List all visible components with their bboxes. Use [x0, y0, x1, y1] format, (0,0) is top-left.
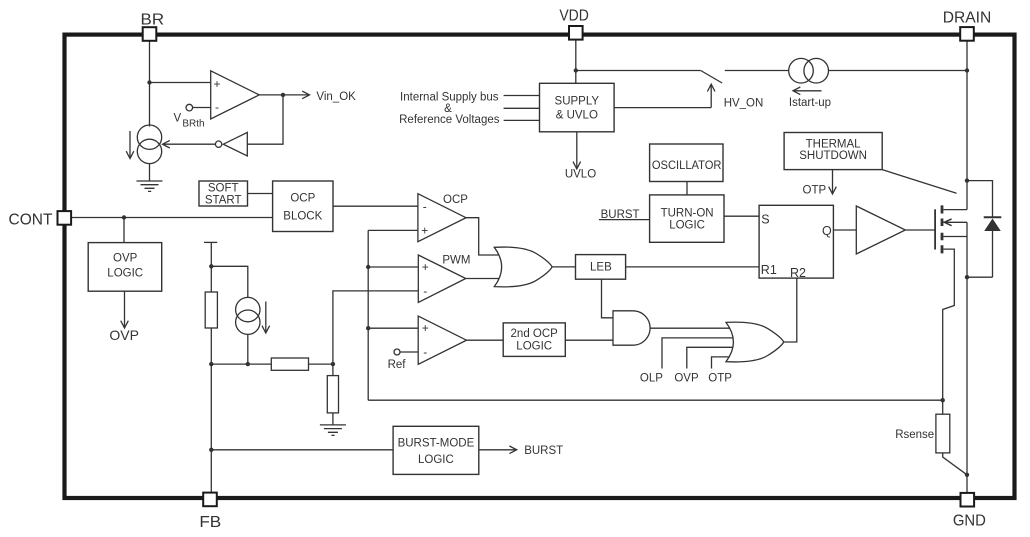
svg-text:Vin_OK: Vin_OK [316, 91, 356, 103]
svg-text:+: + [422, 260, 429, 274]
wire OTP arrow below THERMAL SHUTDOWN [832, 170, 834, 194]
arrow left below Istart-up [793, 90, 822, 92]
block THERMAL SHUTDOWN [784, 133, 882, 170]
svg-text:DRAIN: DRAIN [943, 10, 992, 27]
wire Rsense bottom to GND line [943, 453, 967, 475]
terminal VBRth (open circle) [186, 104, 193, 111]
svg-text:LOGIC: LOGIC [516, 341, 552, 353]
svg-text:PWM: PWM [442, 255, 470, 267]
node GND junction [965, 473, 969, 477]
diode D1 (body diode) [984, 216, 1002, 218]
wire DRAIN pin down to MOSFET drain [966, 41, 968, 210]
block OVP LOGIC [88, 243, 162, 292]
block SR latch [759, 205, 833, 278]
node diode top junction [965, 178, 969, 182]
svg-text:OCP: OCP [443, 194, 468, 206]
IC boundary frame [65, 35, 1015, 498]
svg-text:-: - [215, 100, 219, 114]
wire comparator output to Vin_OK arrow [259, 94, 309, 96]
svg-text:FB: FB [199, 514, 221, 531]
wire IBR to ground [149, 164, 151, 181]
block OSCILLATOR [650, 144, 723, 182]
wire OTP riser [712, 357, 743, 369]
wire rail to resistor R1 [210, 243, 212, 292]
svg-text:2nd OCP: 2nd OCP [511, 328, 559, 340]
svg-text:V: V [174, 112, 182, 124]
wire AND1 output to OR2 [650, 327, 745, 329]
svg-text:+: + [422, 321, 429, 335]
block TURN-ON LOGIC [650, 195, 724, 242]
wire junction to current source IFB [211, 266, 248, 297]
gate AND1 [613, 311, 650, 345]
node bus PWM+ [366, 265, 370, 269]
svg-text:R1: R1 [761, 263, 777, 277]
wire buffer to MOSFET gate [905, 229, 935, 231]
block SUPPLY & UVLO [540, 83, 615, 132]
wire VDD junction to HV_ON switch [576, 70, 701, 72]
node sense junction [941, 398, 945, 402]
wire SOFT START to OCP BLOCK [248, 193, 273, 195]
comparator PWM [418, 255, 466, 303]
wire bus to PWM + input [368, 266, 418, 268]
resistor R3 (vertical to ground) [327, 376, 338, 413]
block SOFT START [199, 181, 248, 206]
wire node down to resistor R3 [332, 364, 334, 376]
svg-text:OTP: OTP [708, 373, 732, 385]
wire switch to Istart-up source [725, 70, 789, 72]
node bus comp3+ [366, 326, 370, 330]
transistor M1 channel bars [941, 205, 944, 253]
wire BR pin to junction and current source [149, 41, 151, 127]
pin BR [143, 27, 157, 41]
wire OCP BLOCK to OCP comparator - input [333, 205, 418, 207]
svg-text:TURN-ON: TURN-ON [661, 207, 714, 219]
svg-text:BR: BR [141, 11, 165, 28]
block LEB [576, 255, 626, 280]
wire SUPPLY output to HV_ON arrow [614, 107, 711, 109]
buffer U3 [856, 206, 905, 254]
pin VDD [569, 26, 583, 40]
inverter U2 (points left) [223, 132, 247, 156]
node FB lower junction [209, 448, 213, 452]
wire junction to BURST-MODE LOGIC [211, 449, 393, 451]
wire internal supply bus inputs [504, 96, 540, 121]
svg-text:+: + [213, 77, 220, 91]
switch HV_ON blade [701, 71, 722, 84]
svg-text:BURST-MODE: BURST-MODE [398, 438, 475, 450]
node VDD junction [574, 68, 578, 72]
svg-text:Rsense: Rsense [895, 429, 934, 441]
wire current sense line [368, 399, 943, 401]
svg-text:+: + [421, 223, 428, 237]
node divider mid [246, 362, 250, 366]
wire M1 body down to GND line [966, 222, 968, 493]
svg-text:S: S [761, 212, 769, 226]
node CONT junction [122, 215, 126, 219]
svg-text:LOGIC: LOGIC [107, 267, 143, 279]
svg-text:& UVLO: & UVLO [556, 109, 598, 121]
svg-text:-: - [423, 284, 427, 298]
svg-text:BURST: BURST [524, 445, 563, 457]
svg-text:VDD: VDD [559, 8, 589, 25]
wire Ref to comp3 - input [400, 351, 418, 353]
wire bus to comp3 + input [368, 327, 418, 329]
node BR junction [147, 80, 151, 84]
wire junction down to inverter input [247, 95, 283, 144]
node diode bottom junction [965, 275, 969, 279]
svg-text:HV_ON: HV_ON [724, 97, 764, 109]
svg-text:OTP: OTP [803, 184, 827, 196]
ground below IBR [137, 181, 163, 191]
wire diagonal from THERMAL SHUTDOWN to gate [882, 170, 956, 194]
pin CONT [58, 211, 72, 225]
block BURST-MODE LOGIC [393, 426, 479, 474]
wire CONT to OCP BLOCK [71, 217, 272, 219]
node FB top junction [209, 264, 213, 268]
wire LEB to R1 input of latch [626, 266, 760, 268]
terminal Ref (open circle) [394, 349, 400, 355]
wire Istart-up to drain line [829, 70, 968, 72]
node Vin_OK junction [281, 93, 285, 97]
wire LEB bottom to AND gate [602, 279, 614, 318]
wire BURST input to TURN-ON LOGIC [599, 219, 650, 221]
arrow down beside IBR [129, 131, 131, 159]
wire PWM output to OR1 [466, 278, 505, 280]
wire 2nd OCP LOGIC to AND gate [565, 339, 613, 341]
svg-text:UVLO: UVLO [565, 169, 596, 181]
svg-text:GND: GND [953, 513, 986, 530]
svg-text:BLOCK: BLOCK [283, 210, 322, 222]
ground below R3 [320, 425, 346, 436]
wire junction down to OVP LOGIC [123, 218, 125, 243]
svg-text:Reference Voltages: Reference Voltages [399, 114, 500, 126]
wire diode top branch [967, 181, 993, 218]
current source IFB (two circles) [236, 297, 260, 321]
svg-text:LEB: LEB [590, 261, 612, 273]
wire R3 to ground [332, 413, 334, 425]
wire inverter output to IBR (arrow left) [163, 143, 216, 145]
svg-text:LOGIC: LOGIC [418, 454, 454, 466]
pin GND [961, 493, 975, 507]
wire OSCILLATOR to TURN-ON LOGIC [686, 182, 688, 195]
svg-text:R2: R2 [790, 266, 806, 280]
wire BURST output arrow [479, 449, 517, 451]
svg-text:SUPPLY: SUPPLY [555, 96, 600, 108]
wire TURN-ON LOGIC to S input [724, 215, 759, 217]
wire Q output to buffer [833, 229, 856, 231]
gate OR2 [726, 322, 784, 362]
svg-text:-: - [423, 199, 427, 213]
wire OVP LOGIC output arrow [124, 291, 126, 328]
wire VBRth to comparator - input [193, 107, 211, 109]
wire node to resistor R2 [211, 363, 271, 365]
wire OVP riser [687, 347, 745, 368]
wire OCP output to OR1 [466, 218, 505, 255]
wire M1 drain connect [943, 209, 967, 211]
node divider right [331, 362, 335, 366]
svg-text:OVP: OVP [109, 327, 139, 343]
svg-text:OCP: OCP [290, 193, 315, 205]
resistor R2 (horizontal) [271, 358, 308, 370]
block OCP BLOCK [273, 181, 333, 232]
resistor Rsense [936, 414, 950, 453]
wire IFB bottom to node [247, 334, 249, 364]
block 2nd OCP LOGIC [503, 323, 565, 357]
comparator OCP [418, 194, 466, 242]
wire bus to OCP + input [368, 229, 418, 231]
wire M1 body second bar connect [943, 236, 967, 238]
wire VDD pin down to SUPPLY block [575, 40, 577, 83]
wire BR junction to comparator + input [150, 82, 211, 84]
svg-text:BURST: BURST [601, 209, 640, 221]
resistor R1 (FB pull-up) [205, 292, 217, 328]
comparator 2nd OCP [418, 316, 466, 364]
wire node up to PWM - input [333, 291, 418, 364]
current source Istart-up (two circles) [789, 58, 814, 83]
wire R1 bottom to node [210, 328, 212, 364]
wire FB vertical line [210, 364, 212, 493]
svg-text:Ref: Ref [388, 359, 407, 371]
svg-text:Internal Supply bus: Internal Supply bus [400, 91, 499, 103]
svg-text:SOFT: SOFT [208, 183, 239, 195]
svg-text:START: START [205, 195, 242, 207]
node drain top junction [965, 68, 969, 72]
wire sense bus vertical [367, 230, 369, 400]
gate OR1 [494, 247, 552, 287]
svg-text:OLP: OLP [640, 373, 663, 385]
pin FB [203, 493, 217, 507]
internal rail tap above FB divider [204, 241, 217, 243]
node divider left [209, 362, 213, 366]
pin DRAIN [960, 27, 974, 41]
wire comp3 output to 2nd OCP LOGIC [467, 339, 504, 341]
svg-text:Istart-up: Istart-up [789, 97, 831, 109]
wire M1 body connect (arrow) [943, 221, 967, 223]
comparator U1 (brown-out, Vin_OK) [211, 71, 260, 119]
svg-text:OVP: OVP [113, 253, 138, 265]
wire OR1 to LEB [552, 266, 575, 268]
svg-text:-: - [423, 345, 427, 359]
svg-text:CONT: CONT [9, 212, 53, 229]
wire R2 to node right [309, 363, 333, 365]
svg-text:SHUTDOWN: SHUTDOWN [799, 150, 867, 162]
svg-text:OSCILLATOR: OSCILLATOR [652, 160, 722, 172]
svg-text:Q: Q [822, 224, 832, 238]
svg-text:OVP: OVP [674, 373, 699, 385]
svg-text:LOGIC: LOGIC [669, 220, 705, 232]
wire M1 source connect [943, 249, 955, 414]
wire OR2 output up to R2 of latch [784, 278, 797, 342]
wire diode bottom branch [967, 276, 993, 278]
arrow down beside IFB [265, 302, 267, 334]
wire UVLO arrow [576, 132, 578, 169]
wire OLP riser [662, 338, 745, 369]
current source IBR (two circles) [137, 125, 161, 149]
transistor M1 gate plate [934, 209, 936, 249]
svg-text:THERMAL: THERMAL [806, 138, 862, 150]
svg-text:BRth: BRth [182, 119, 204, 130]
